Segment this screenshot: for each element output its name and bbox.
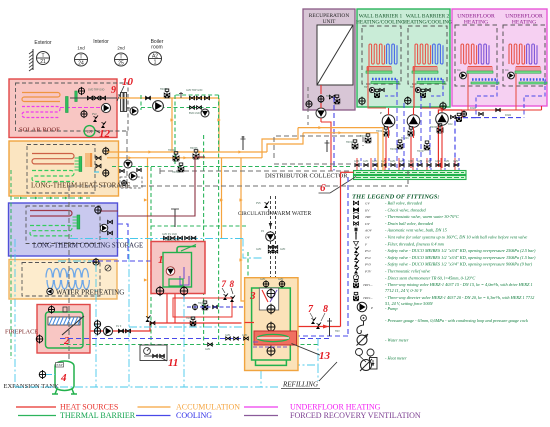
floor register comb — [516, 66, 540, 68]
svg-text:P: P — [370, 306, 373, 310]
legend item pressure gauge — [361, 315, 367, 321]
tank3 dhw coil red block — [254, 331, 297, 345]
recup blue dashed drop — [333, 97, 335, 171]
solar collector coil magenta — [22, 107, 60, 118]
distributor collector feed verticals — [356, 158, 358, 170]
expansion tank flange — [39, 371, 46, 378]
cyan refill vertical 184 — [183, 294, 185, 387]
svg-text:KV: KV — [364, 208, 370, 212]
solar valve group — [87, 96, 92, 100]
tank1 compressor violet — [180, 267, 189, 285]
safety valves tank3 group — [311, 321, 315, 324]
tank1 green bottom box — [169, 279, 183, 286]
three-way TRV04 — [173, 156, 179, 161]
cooling storage hx green bar — [77, 215, 80, 229]
tank3 vessel green — [252, 288, 291, 360]
svg-text:- Pump: - Pump — [385, 306, 398, 311]
svg-text:GVD: GVD — [408, 160, 413, 163]
svg-text:Exterior: Exterior — [34, 40, 52, 46]
three-way valve TRV03 — [408, 131, 414, 136]
cyan refill long horizontal top — [70, 238, 243, 240]
underfloor blue dashed collector — [476, 117, 522, 119]
svg-text:CIRCULATION: CIRCULATION — [238, 211, 273, 217]
svg-text:TRV1...: TRV1... — [363, 283, 373, 287]
legend item TRV2 diverter valve — [353, 296, 358, 300]
underfloor heating zone box — [452, 9, 547, 106]
svg-text:GVD: GVD — [225, 334, 230, 337]
legend item TRV1 mixing valve — [353, 283, 358, 287]
svg-text:P: P — [380, 111, 382, 115]
orange vertical mid field — [221, 158, 223, 239]
wall valve cluster — [369, 87, 374, 92]
svg-text:PV1: PV1 — [364, 249, 371, 253]
svg-text:TRV11: TRV11 — [346, 141, 354, 144]
mid valves near tank1 top — [185, 236, 190, 239]
solar safety valve PV2 — [93, 119, 97, 122]
svg-text:TRV12: TRV12 — [360, 135, 368, 138]
blue dashed cooling vertical long — [347, 177, 349, 336]
cold water mark — [94, 171, 99, 173]
fireplace hatched band — [48, 317, 80, 325]
circulation safety — [264, 205, 268, 208]
heat storage hx green bar — [79, 157, 82, 172]
legend line forced recovery ventilation — [244, 415, 278, 417]
blue dashed link tank1 to tank3 — [187, 306, 245, 308]
blue dashed long bottom horizontal — [60, 338, 330, 340]
svg-text:TRV: TRV — [326, 95, 331, 98]
three-way TRV01 — [164, 93, 170, 98]
svg-text:6: 6 — [320, 182, 326, 194]
legend line cooling — [136, 415, 171, 417]
svg-text:- Water meter: - Water meter — [385, 338, 409, 343]
gray dashed pump zone box — [274, 136, 363, 158]
svg-text:GVD: GVD — [260, 278, 265, 281]
orange vertical to fireplace valve — [147, 158, 149, 318]
gray dashed ventilation duct vertical — [68, 186, 70, 361]
underfloor return blue to distributor — [455, 118, 476, 167]
orange solar drop at 172 — [171, 98, 173, 152]
legend item PTV — [354, 271, 358, 274]
floor blue return drop — [476, 80, 497, 118]
green dashed vertical right tank3 — [247, 252, 249, 345]
floor red feed drop — [515, 74, 517, 111]
legend item water meter — [357, 335, 367, 345]
svg-text:TRV01: TRV01 — [160, 88, 168, 91]
water preheating zone box — [9, 260, 117, 300]
svg-text:TRV03: TRV03 — [401, 137, 409, 140]
svg-text:KV F: KV F — [116, 325, 122, 328]
legend line underfloor heating — [244, 406, 278, 408]
svg-text:GVD: GVD — [372, 160, 377, 163]
tank1 zone box heat pump — [151, 242, 205, 294]
wall register comb — [413, 66, 437, 68]
svg-text:2nd: 2nd — [117, 46, 125, 51]
three-way TRV11 — [352, 144, 358, 149]
wall coil blue — [387, 44, 397, 64]
svg-text:TRV04: TRV04 — [168, 149, 176, 152]
three-way lower — [178, 167, 184, 172]
thermal barrier arrows below storage — [14, 197, 90, 199]
wall barrier dashed boundary — [408, 26, 447, 84]
recuperation valve cluster — [329, 95, 334, 99]
red from tank3 coil to right riser — [290, 326, 341, 328]
svg-text:DISTRIBUTOR COLLECTOR: DISTRIBUTOR COLLECTOR — [265, 173, 348, 180]
solar heat exchanger green bar — [66, 97, 69, 113]
wall barrier dashed boundary — [362, 26, 401, 84]
cyan to expansion tank — [46, 374, 55, 376]
svg-text:3: 3 — [249, 290, 256, 302]
svg-text:HEATING/COOLING: HEATING/COOLING — [403, 20, 452, 26]
tank1 flange right — [180, 287, 188, 295]
floor coil violet — [527, 44, 537, 64]
legend item OV — [355, 234, 357, 240]
svg-text:PTV: PTV — [364, 270, 372, 274]
green dashed long bottom horizontal — [60, 344, 318, 346]
svg-text:HEATING: HEATING — [512, 20, 536, 26]
svg-text:24: 24 — [78, 61, 84, 67]
solar pump P — [101, 103, 110, 112]
svg-text:TRV05: TRV05 — [172, 171, 180, 174]
recup red drop — [320, 85, 322, 94]
heat storage pump 1 — [124, 160, 132, 168]
preheating coil lower arcs — [47, 280, 89, 289]
red fireplace line lower — [90, 323, 242, 331]
fireplace left flange — [36, 336, 43, 343]
green dashed horizontal distributor level — [112, 166, 352, 168]
wall red feed — [368, 64, 369, 98]
legend item DV — [354, 222, 359, 225]
recuperator body with diagonal — [317, 25, 353, 85]
gray dashed vertical right — [407, 171, 409, 186]
tank3 inner white mix box — [259, 288, 278, 310]
green dashed solar horizontal — [141, 107, 219, 109]
wall coil blue — [433, 44, 443, 64]
valve TRV06 — [397, 144, 403, 149]
cyan refill horizontal 327 — [129, 326, 250, 328]
svg-text:T: T — [41, 53, 44, 59]
orange solar drop at 219 — [218, 98, 220, 152]
svg-text:DN20: DN20 — [470, 107, 477, 110]
solar roof zone box — [9, 79, 117, 138]
actuator cluster right — [451, 115, 456, 118]
floor cooling dotted bar — [472, 78, 498, 80]
three-way TRV0b — [193, 154, 199, 159]
expansion tank vessel — [55, 361, 74, 390]
svg-text:DV: DV — [364, 222, 370, 226]
floor coil red — [461, 44, 477, 64]
svg-text:21: 21 — [40, 59, 46, 65]
orange flow arrows — [148, 150, 151, 153]
svg-text:UNIT: UNIT — [323, 19, 337, 25]
solar loop check — [146, 96, 151, 99]
cyan refill vertical left — [14, 239, 16, 387]
svg-text:EN: EN — [87, 130, 92, 134]
svg-text:SOLAR ROOF: SOLAR ROOF — [19, 127, 60, 134]
svg-text:GVD: GVD — [417, 160, 422, 163]
preheating gauge — [105, 265, 111, 271]
legend item AOV — [355, 228, 358, 232]
fireplace flue diagonal — [62, 316, 84, 335]
wall valve cluster — [415, 87, 420, 92]
svg-text:GVD: GVD — [242, 334, 247, 337]
svg-text:GVD: GVD — [205, 348, 210, 351]
solar mid valve group — [190, 96, 195, 100]
solar flange bottom — [81, 111, 87, 117]
green dashed vertical solar hx — [140, 95, 142, 110]
wall register comb — [367, 66, 391, 68]
cooling storage coil maroon — [30, 211, 72, 217]
svg-text:DN20: DN20 — [505, 114, 512, 117]
tank3 mixing funnel violet — [270, 290, 277, 302]
cyan refill horizontal 261 — [58, 260, 92, 262]
tank3 top flanges — [263, 281, 269, 287]
orange lower pair from heat storage — [107, 151, 267, 153]
legend item GV — [353, 201, 358, 205]
three way near tank1 bottom — [190, 321, 196, 326]
gray dashed horizontal upper — [160, 170, 352, 172]
svg-text:8: 8 — [323, 304, 328, 315]
group 11 valves — [153, 354, 158, 357]
vent at solar line — [180, 92, 182, 98]
red arrow on line 326 — [323, 325, 329, 329]
svg-text:11: 11 — [168, 357, 178, 369]
green dashed horizontal to tank3 — [151, 225, 248, 227]
group 11 gauge — [144, 348, 151, 355]
recuperation flange 1 — [306, 101, 312, 107]
svg-text:A2: A2 — [152, 53, 158, 59]
cooling storage inner dashed boundary — [26, 206, 100, 244]
gray dashed ventilation horizontal — [69, 185, 408, 187]
svg-text:HEATING: HEATING — [464, 20, 488, 26]
legend item TRV — [354, 215, 359, 218]
svg-text:TRV2...: TRV2... — [363, 296, 373, 300]
fireplace tee valves — [150, 321, 155, 324]
solar safety valve PV — [101, 125, 105, 128]
cyan refill bottom long horizontal — [15, 386, 280, 388]
heat storage flange bottom — [103, 170, 109, 176]
underfloor feed red to distributor — [438, 110, 462, 167]
svg-text:BVB tvrl GVD: BVB tvrl GVD — [165, 239, 180, 242]
cooling storage flange — [95, 207, 102, 214]
solar hx green bar 2 — [75, 91, 77, 102]
cyan refill vertical 96 — [95, 264, 97, 387]
svg-text:GVD: GVD — [435, 160, 440, 163]
wall coil red — [369, 44, 385, 64]
solar collector coil orange — [22, 93, 60, 102]
bottom line valves — [226, 337, 231, 340]
svg-text:GVD: GVD — [354, 160, 359, 163]
svg-text:GVD: GVD — [444, 160, 449, 163]
fireplace filter — [126, 329, 131, 333]
floor manifold pump — [460, 72, 467, 79]
orange riser pair mid — [262, 128, 298, 158]
svg-text:AOV: AOV — [364, 229, 373, 233]
svg-text:T: T — [119, 54, 122, 60]
legend line heat sources — [16, 406, 56, 408]
wall barrier flange 1 — [359, 98, 365, 104]
legend item thermo — [353, 275, 358, 280]
svg-text:GVD: GVD — [399, 160, 404, 163]
pointer to 13 — [292, 344, 320, 356]
orange vertical to tank3 — [241, 158, 245, 301]
floor red feed drop — [467, 74, 469, 111]
vent pipe mid — [242, 136, 244, 150]
floor blue return drop — [524, 80, 545, 118]
sensor exterior wall hatch — [32, 49, 34, 70]
tank1 top valves — [164, 236, 169, 239]
heat storage coil red — [32, 154, 74, 164]
sensor pocket stub — [174, 209, 176, 227]
preheating coil upper arcs — [46, 269, 88, 278]
solar mid lower valves — [190, 106, 195, 109]
vent pipe at 327 — [326, 140, 328, 152]
fireplace boiler body green — [46, 312, 84, 348]
legend item KV — [353, 208, 358, 212]
pointer 10 — [117, 86, 124, 101]
blue dashed horizontal mid left — [90, 260, 152, 262]
svg-text:TRV06: TRV06 — [190, 147, 198, 150]
svg-text:room: room — [151, 45, 162, 51]
svg-text:1: 1 — [158, 254, 164, 266]
wall barrier flange 3 — [440, 103, 446, 109]
svg-text:TRV08: TRV08 — [186, 317, 194, 320]
red rect group below tank1 — [173, 298, 232, 317]
expansion tank label EXP — [56, 363, 64, 368]
svg-text:1: 1 — [154, 60, 157, 66]
green dashed vertical left tank1 — [150, 167, 152, 345]
wall red feed — [414, 64, 415, 98]
svg-text:GVD: GVD — [390, 160, 395, 163]
svg-text:WARM WATER: WARM WATER — [273, 211, 312, 217]
expansion tank legs — [55, 389, 57, 394]
solar hx pump — [130, 107, 138, 115]
svg-text:GVD: GVD — [426, 160, 431, 163]
svg-text:PV3: PV3 — [364, 263, 371, 267]
solar vent sensor EN — [84, 126, 95, 137]
svg-text:13: 13 — [319, 350, 331, 362]
svg-text:THE LEGEND OF FITTINGS:: THE LEGEND OF FITTINGS: — [352, 194, 440, 201]
wall barrier red drops to pumps — [368, 84, 386, 108]
svg-text:FORCED RECOVERY VENTILATION: FORCED RECOVERY VENTILATION — [290, 411, 421, 420]
svg-text:FIREPLACE: FIREPLACE — [5, 329, 38, 336]
svg-text:12: 12 — [99, 128, 111, 140]
tank1 inner green unit — [163, 253, 192, 288]
wall blue return — [385, 79, 397, 96]
svg-text:Chd: Chd — [448, 123, 453, 126]
cyan refill stub to refilling label — [317, 365, 319, 381]
solar loop pump mid — [153, 101, 164, 112]
preheating pump — [47, 288, 53, 294]
svg-text:GVD: GVD — [278, 278, 283, 281]
three-way valve TRV05 — [437, 128, 443, 133]
solar valve group pipe — [70, 97, 117, 99]
underfloor dashed boundary — [455, 25, 497, 86]
svg-text:WATER PREHEATING: WATER PREHEATING — [56, 289, 124, 297]
svg-text:PV2: PV2 — [92, 113, 97, 116]
svg-text:TRV09: TRV09 — [198, 302, 206, 305]
svg-text:EXPANSION TANK: EXPANSION TANK — [4, 383, 60, 390]
svg-text:- Heat meter: - Heat meter — [385, 356, 407, 361]
svg-text:- Thermostatic relief valve: - Thermostatic relief valve — [385, 269, 430, 274]
fireplace pump — [103, 326, 112, 335]
green dashed left edge vertical — [10, 170, 12, 359]
cyan refill vertical 129 — [128, 239, 130, 387]
valve TRV07 — [424, 145, 430, 150]
solar plate heat exchanger — [121, 93, 124, 112]
floor register comb — [468, 66, 492, 68]
svg-text:REFILLING: REFILLING — [282, 381, 318, 389]
svg-text:GVD TRP GVD: GVD TRP GVD — [186, 89, 203, 92]
red heat sources vertical right — [340, 172, 342, 326]
svg-text:9: 9 — [111, 85, 116, 96]
maroon pipe from cooling to valves — [118, 157, 195, 216]
wall blue return — [431, 79, 443, 96]
tank3 purple dashed bottom — [253, 346, 289, 348]
vent pipe right of tank3 — [329, 318, 331, 336]
floor cooling dotted bar — [520, 78, 546, 80]
green dashed vertical thermal barrier 3 — [218, 95, 220, 345]
svg-text:COOLING: COOLING — [176, 411, 212, 420]
underfloor dashed boundary — [503, 25, 545, 86]
svg-text:TRV: TRV — [335, 330, 340, 333]
heat storage inner dashed boundary — [27, 145, 95, 194]
legend item PV3 — [354, 264, 358, 267]
svg-text:HEATING/COOLING: HEATING/COOLING — [356, 20, 405, 26]
green dashed horizontal mid — [175, 94, 219, 96]
svg-text:25: 25 — [118, 61, 124, 67]
tank3 zone box — [245, 278, 298, 371]
fireplace check valve — [119, 329, 124, 333]
svg-text:GVD TRP GVD: GVD TRP GVD — [88, 89, 105, 92]
bottom line valves 2 — [208, 343, 213, 346]
tank3 red inlet — [245, 322, 254, 324]
heating circuit pump 1 — [382, 115, 395, 128]
svg-text:4: 4 — [60, 372, 67, 384]
tank1 pump — [166, 267, 175, 276]
green dashed vertical thermal barrier 2 — [203, 135, 205, 345]
svg-text:GVD: GVD — [453, 160, 458, 163]
legend line thermal barrier — [18, 415, 56, 417]
underfloor red collector line — [462, 106, 542, 110]
distributor collector bar 1 — [354, 171, 467, 175]
three-way valve TRV02 — [383, 131, 389, 136]
recup gray dashed duct — [307, 87, 309, 125]
fireplace top fitting — [63, 307, 67, 312]
purple drop from tank1 — [183, 294, 185, 300]
svg-text:8: 8 — [230, 279, 235, 289]
svg-text:GVD: GVD — [363, 160, 368, 163]
green dashed vertical thermal barrier 1 — [174, 95, 176, 166]
svg-text:PV5: PV5 — [256, 202, 261, 205]
svg-text:Interior: Interior — [93, 39, 109, 45]
orange drop valve — [146, 319, 150, 322]
recuperation unit zone box — [303, 9, 355, 110]
blue dashed into tank3 bottom — [290, 335, 348, 337]
distributor collector bar 2 — [354, 176, 467, 180]
magenta return to pump — [60, 107, 101, 109]
heat storage coil green dashed — [32, 171, 74, 182]
circulation valves — [268, 245, 272, 248]
svg-text:TRV05: TRV05 — [430, 126, 438, 129]
svg-text:GVD: GVD — [280, 248, 285, 251]
svg-text:GVD: GVD — [381, 160, 386, 163]
fireplace zone box — [37, 305, 90, 354]
solar roof inner dashed boundary — [16, 83, 129, 131]
preheating flange — [93, 259, 99, 265]
fireplace loop flanges — [94, 321, 100, 327]
blue dashed cooling drop from storage — [118, 224, 128, 261]
heat storage zone box — [9, 141, 119, 196]
